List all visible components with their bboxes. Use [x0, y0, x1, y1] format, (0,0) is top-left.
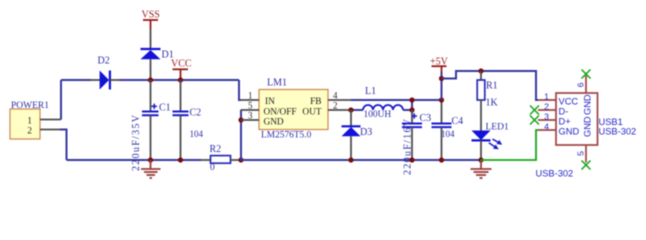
svg-text:104: 104	[190, 129, 204, 139]
svg-text:220uF/35V: 220uF/35V	[131, 114, 142, 171]
svg-text:1: 1	[27, 117, 32, 127]
junction node pin 3	[238, 117, 243, 122]
svg-text:6: 6	[576, 82, 586, 87]
svg-text:C3: C3	[420, 113, 432, 124]
pin 2 of USB1	[538, 109, 556, 111]
svg-text:D-: D-	[559, 106, 569, 116]
ground at LED1	[471, 160, 492, 178]
svg-text:2: 2	[27, 127, 32, 137]
wire OUT net to L1	[351, 109, 363, 111]
no-ERC mark pin 3	[530, 116, 539, 125]
pin 4 of USB1	[538, 129, 556, 131]
diode D1	[141, 49, 174, 61]
svg-text:GND: GND	[583, 116, 593, 137]
resistor R1	[477, 71, 498, 131]
svg-text:C1: C1	[159, 103, 171, 114]
no-ERC mark pin 2	[530, 106, 539, 115]
wire top bus corner down to LM1 pin 1	[239, 80, 241, 100]
svg-text:USB1: USB1	[599, 117, 623, 127]
wire +5V port down to FB node	[441, 72, 443, 100]
power port +5V	[430, 57, 449, 73]
svg-text:GND: GND	[264, 117, 284, 127]
connector USB1	[556, 93, 636, 145]
wire POWER1 pin2 down to bottom bus	[60, 130, 67, 161]
resistor R2	[201, 144, 241, 173]
svg-text:USB-302: USB-302	[536, 169, 574, 179]
svg-text:LM2576T5.0: LM2576T5.0	[261, 130, 312, 140]
junction node C4 top / FB end	[439, 97, 444, 102]
svg-text:D+: D+	[559, 116, 571, 126]
wire green GND to USB pin 4	[481, 130, 538, 160]
svg-text:2: 2	[333, 100, 338, 110]
capacitor C4	[432, 100, 464, 160]
pin 2 of LM1	[328, 109, 351, 111]
capacitor C2	[173, 80, 204, 160]
no-ERC mark pin 6	[582, 70, 591, 79]
junction node +5V tee	[439, 76, 444, 81]
diode D2	[90, 56, 120, 90]
svg-text:C2: C2	[190, 108, 202, 119]
svg-text:1: 1	[248, 91, 253, 101]
wire top bus middle segment	[120, 79, 240, 81]
junction node FB/link	[409, 97, 414, 102]
pin 5 of USB1	[585, 145, 587, 163]
svg-text:VCC: VCC	[559, 96, 579, 106]
svg-text:2: 2	[544, 102, 549, 112]
svg-text:D2: D2	[98, 56, 110, 67]
pin 6 of USB1	[585, 76, 587, 94]
svg-text:USB-302: USB-302	[599, 127, 637, 137]
junction node D3 top	[348, 107, 353, 112]
svg-text:1K: 1K	[486, 98, 499, 109]
capacitor C3	[402, 110, 431, 175]
svg-text:IN: IN	[265, 97, 275, 107]
svg-text:3: 3	[248, 111, 253, 121]
junction node D1/C1/bus	[148, 77, 153, 82]
svg-text:5: 5	[576, 151, 586, 156]
junction node C1 bottom	[148, 157, 153, 162]
svg-text:OUT: OUT	[302, 107, 321, 117]
pin 3 of USB1	[538, 119, 556, 121]
wire bottom bus right segment	[241, 159, 481, 161]
wire POWER1 pin1 up to top bus	[60, 80, 62, 120]
wire VSS to D1	[150, 29, 152, 49]
junction node C2 bottom	[178, 157, 183, 162]
connector POWER1	[10, 101, 49, 139]
capacitor C1	[131, 80, 171, 171]
svg-text:0: 0	[210, 163, 215, 173]
svg-text:R2: R2	[210, 144, 222, 155]
pin 1 of LM1	[241, 99, 260, 101]
ground at C1/C2	[141, 160, 161, 178]
svg-text:VSS: VSS	[142, 10, 160, 21]
junction node L1/C3/link	[409, 107, 414, 112]
wire link pin5-pin3-bottom bus	[240, 110, 242, 160]
wire link OUT node to FB wire	[411, 100, 413, 110]
junction node C4 bottom	[439, 157, 444, 162]
pin 2 of POWER1	[40, 129, 61, 131]
svg-text:GND: GND	[583, 94, 593, 115]
svg-text:C4: C4	[452, 116, 464, 127]
pin 4 of LM1	[328, 99, 351, 101]
wire L1 to C3 node	[403, 109, 412, 111]
junction node LED bottom	[478, 157, 483, 162]
svg-text:100UH: 100UH	[364, 110, 392, 120]
junction node D3 bottom	[348, 157, 353, 162]
pin 5 of LM1	[241, 109, 260, 111]
no-ERC mark pin 5	[582, 161, 591, 170]
svg-text:3: 3	[544, 112, 549, 122]
svg-text:GND: GND	[559, 126, 580, 136]
svg-text:4: 4	[333, 90, 338, 100]
svg-text:LM1: LM1	[267, 78, 287, 89]
svg-text:VCC: VCC	[171, 59, 192, 70]
junction node R1 top	[478, 68, 483, 73]
svg-text:4: 4	[544, 122, 549, 132]
wire D1 to top bus	[150, 59, 152, 80]
LED LED1	[472, 123, 509, 161]
op-amp U1 : regulator LM1 box	[259, 78, 328, 141]
svg-text:L1: L1	[365, 86, 376, 97]
pin 1 of POWER1	[40, 119, 61, 121]
junction node C3 bottom	[409, 157, 414, 162]
wire FB net	[351, 99, 442, 101]
power port VCC	[171, 59, 192, 81]
svg-text:D3: D3	[360, 127, 372, 138]
svg-text:1: 1	[544, 92, 549, 102]
pin 1 of USB1	[538, 99, 556, 101]
svg-text:104: 104	[441, 129, 455, 139]
junction node R2/pin3 link/bus	[238, 157, 243, 162]
wire bottom bus left segment	[67, 159, 202, 161]
junction node VCC/C2/bus	[178, 77, 183, 82]
pin 3 of LM1	[241, 119, 259, 121]
wire +5V run to USB pin 1	[442, 71, 539, 100]
inductor L1	[363, 86, 403, 120]
power port VSS	[142, 10, 160, 30]
svg-text:220uF/16V: 220uF/16V	[403, 118, 414, 175]
svg-text:5: 5	[248, 101, 253, 111]
svg-text:FB: FB	[310, 97, 321, 107]
svg-text:R1: R1	[486, 81, 498, 92]
wire top bus left segment	[61, 79, 91, 81]
diode D3	[342, 110, 373, 160]
svg-text:ON/OFF: ON/OFF	[264, 107, 297, 117]
